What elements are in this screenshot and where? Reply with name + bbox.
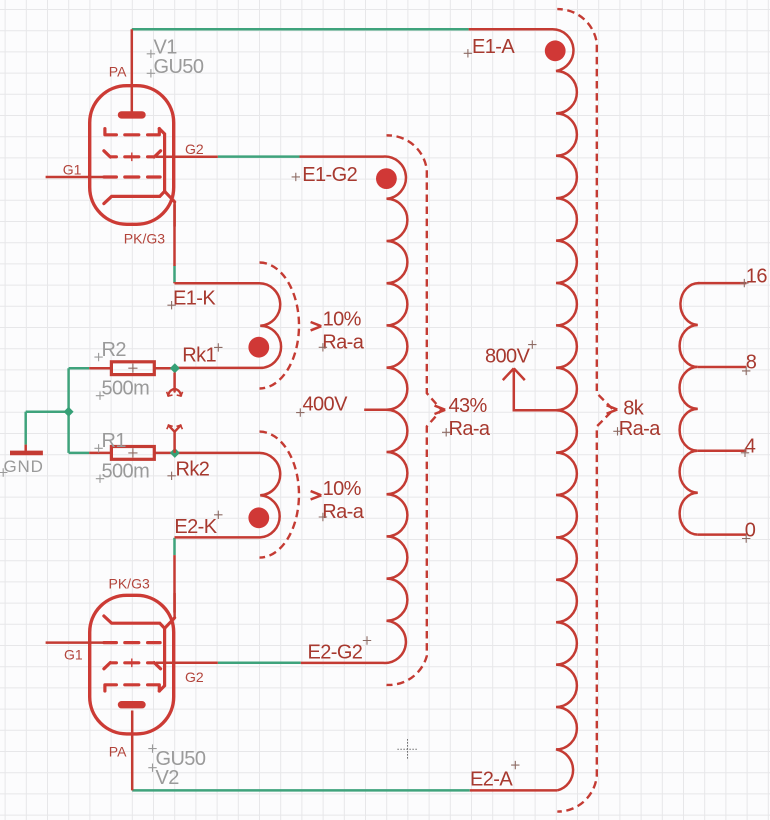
- svg-text:G2: G2: [185, 669, 204, 685]
- ground GND symbol: [24, 445, 27, 451]
- wire secondary tap 16: [698, 282, 747, 285]
- junction Rk2/R1: [170, 448, 180, 458]
- svg-text:800V: 800V: [485, 346, 531, 368]
- svg-text:Ra-a: Ra-a: [619, 418, 661, 440]
- svg-text:8k: 8k: [623, 398, 645, 420]
- wire E2-A red segment: [470, 789, 557, 792]
- svg-text:G1: G1: [63, 162, 82, 178]
- svg-text:10%: 10%: [323, 478, 362, 500]
- arrow 800V tap: [503, 368, 556, 410]
- dashed coupling line screen winding: [387, 135, 442, 685]
- svg-text:400V: 400V: [303, 394, 349, 416]
- wire V1 anode stem: [131, 29, 134, 111]
- svg-text:Ra-a: Ra-a: [449, 418, 491, 440]
- svg-text:E1-G2: E1-G2: [302, 164, 357, 186]
- wire net E2-K green vertical: [173, 538, 176, 555]
- svg-text:GU50: GU50: [154, 56, 204, 78]
- wire 400V tap: [364, 409, 386, 412]
- wire E2-K red vertical to tube V2: [173, 555, 176, 612]
- vacuum tube V2 GU50 (mirrored): [46, 593, 218, 734]
- wire E1-A red segment: [469, 28, 553, 31]
- arrowhead 10% top: [311, 322, 322, 330]
- svg-text:R2: R2: [102, 339, 127, 361]
- resistor R2: [89, 367, 174, 370]
- junction dot E1-G2: [376, 168, 397, 189]
- svg-text:Ra-a: Ra-a: [322, 331, 364, 353]
- inductor main output transformer primary winding E1-A/E2-A: [469, 29, 577, 790]
- arrowhead 8k: [607, 405, 618, 413]
- arrowhead 43%: [435, 406, 446, 414]
- cursor crosshair: [398, 739, 418, 759]
- svg-text:PA: PA: [109, 64, 127, 80]
- svg-text:PA: PA: [109, 744, 127, 760]
- inductor cathode winding Rk2: [175, 453, 281, 538]
- wire E1-K corner to Rk1: [173, 282, 176, 283]
- wire net E1-A top green: [132, 28, 469, 31]
- svg-text:PK/G3: PK/G3: [109, 576, 150, 592]
- wire net R1-left green: [69, 452, 90, 455]
- wire secondary tap 4: [698, 450, 747, 453]
- svg-text:E2-G2: E2-G2: [308, 642, 363, 664]
- spark gap lower electrode: [173, 432, 176, 453]
- dashed coupling arc Rk1: [260, 263, 300, 389]
- wire net E1-G2 green: [218, 155, 300, 158]
- svg-text:G1: G1: [64, 647, 83, 663]
- wire to GND green vertical: [24, 412, 27, 445]
- junction dot E1-A: [545, 40, 566, 61]
- inductor cathode winding Rk1: [175, 283, 282, 368]
- vacuum tube V1 GU50: [46, 86, 218, 227]
- svg-text:10%: 10%: [323, 309, 362, 331]
- wire green vertical R2-R1: [67, 368, 70, 453]
- inductor screen winding E1-G2/E2-G2: [300, 157, 408, 663]
- wire secondary tap 8: [698, 366, 747, 369]
- wire net E2-G2 green: [218, 662, 301, 665]
- svg-text:500m: 500m: [102, 378, 150, 400]
- resistor R1: [89, 452, 174, 455]
- junction dot Rk2: [248, 507, 269, 528]
- svg-text:E2-A: E2-A: [470, 768, 513, 790]
- svg-text:8: 8: [746, 352, 757, 374]
- wire net E1-K green vertical: [173, 266, 176, 283]
- junction GND net: [64, 407, 74, 417]
- svg-text:Ra-a: Ra-a: [322, 501, 364, 523]
- svg-text:E2-K: E2-K: [174, 516, 217, 538]
- wire net R2-left green: [69, 367, 90, 370]
- dashed coupling arc Rk2: [260, 432, 299, 558]
- wire to GND green horizontal: [26, 410, 69, 413]
- svg-text:V2: V2: [156, 767, 180, 789]
- svg-text:500m: 500m: [102, 460, 150, 482]
- svg-text:43%: 43%: [449, 395, 488, 417]
- svg-text:Rk2: Rk2: [176, 459, 210, 481]
- wire net E2-A bottom green: [132, 789, 470, 792]
- svg-text:R1: R1: [102, 430, 127, 452]
- dashed coupling line main winding: [557, 9, 613, 812]
- wire secondary tap 0: [698, 533, 747, 536]
- spark gap upper electrode: [173, 373, 176, 389]
- svg-text:Rk1: Rk1: [182, 345, 216, 367]
- svg-text:GND: GND: [4, 457, 44, 476]
- wire V2 anode stem: [131, 711, 134, 791]
- arrowhead 10% bottom: [311, 491, 322, 499]
- svg-text:E1-K: E1-K: [173, 288, 216, 310]
- wire E1-K red vertical from tube V1: [173, 205, 176, 267]
- svg-text:G2: G2: [185, 141, 204, 157]
- svg-text:4: 4: [745, 435, 756, 457]
- junction Rk1/R2: [170, 363, 180, 373]
- svg-text:16: 16: [746, 266, 768, 288]
- svg-text:PK/G3: PK/G3: [124, 231, 165, 247]
- svg-text:E1-A: E1-A: [472, 36, 515, 58]
- junction dot Rk1: [248, 337, 269, 358]
- inductor secondary winding: [680, 283, 700, 535]
